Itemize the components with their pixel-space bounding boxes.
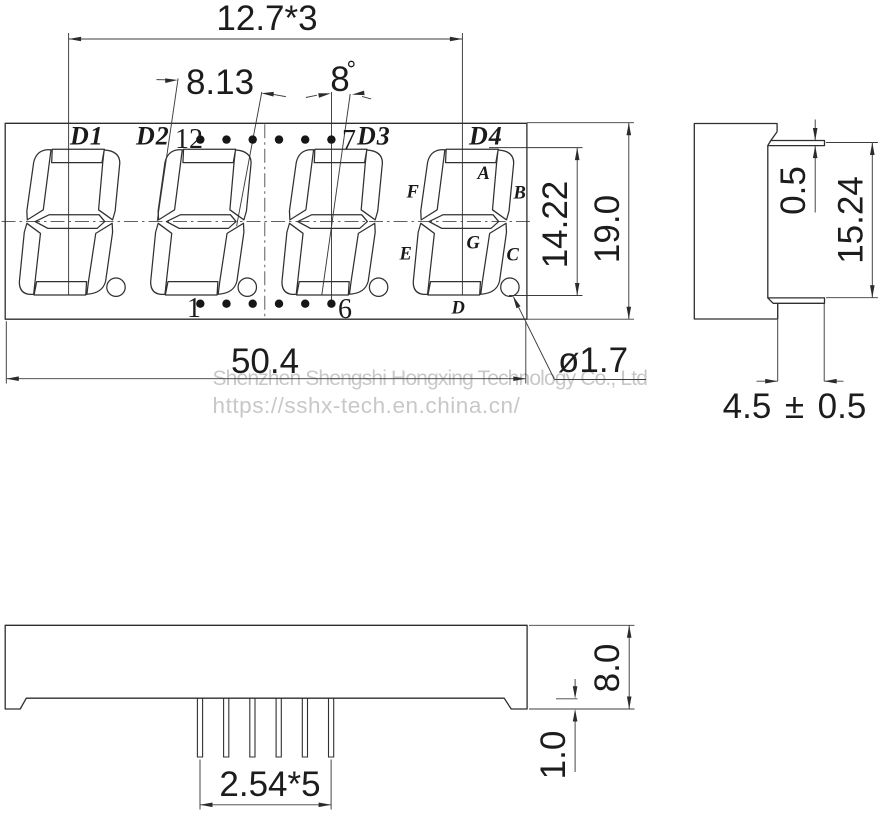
- svg-text:D4: D4: [468, 122, 503, 151]
- svg-text:https://sshx-tech.en.china.cn/: https://sshx-tech.en.china.cn/: [213, 393, 521, 418]
- svg-text:12.7*3: 12.7*3: [216, 0, 317, 38]
- svg-text:G: G: [467, 234, 481, 254]
- svg-text:15.24: 15.24: [831, 176, 870, 264]
- svg-text:4.5: 4.5: [723, 387, 772, 426]
- svg-text:D3: D3: [356, 122, 391, 151]
- svg-text:14.22: 14.22: [536, 181, 575, 269]
- svg-text:D1: D1: [69, 122, 104, 151]
- svg-text:8.0: 8.0: [588, 644, 627, 693]
- svg-text:B: B: [513, 184, 526, 204]
- svg-text:8: 8: [330, 60, 349, 99]
- svg-text:6: 6: [338, 294, 352, 325]
- svg-text:19.0: 19.0: [588, 195, 627, 263]
- svg-text:ø1.7: ø1.7: [558, 341, 628, 380]
- svg-text:8.13: 8.13: [186, 63, 254, 102]
- svg-text:C: C: [507, 246, 520, 266]
- svg-text:7: 7: [342, 125, 356, 156]
- svg-text:2.54*5: 2.54*5: [219, 765, 320, 804]
- svg-text:D: D: [451, 299, 465, 319]
- svg-text:F: F: [406, 183, 420, 203]
- svg-text:D2: D2: [135, 122, 170, 151]
- svg-text:1: 1: [187, 293, 201, 324]
- svg-text:50.4: 50.4: [231, 342, 299, 381]
- svg-text:12: 12: [175, 124, 203, 155]
- svg-text:±: ±: [785, 387, 804, 426]
- svg-text:E: E: [399, 245, 412, 265]
- svg-text:0.5: 0.5: [774, 166, 813, 215]
- svg-text:A: A: [477, 164, 490, 184]
- svg-text:1.0: 1.0: [534, 731, 573, 780]
- svg-text:0.5: 0.5: [818, 387, 867, 426]
